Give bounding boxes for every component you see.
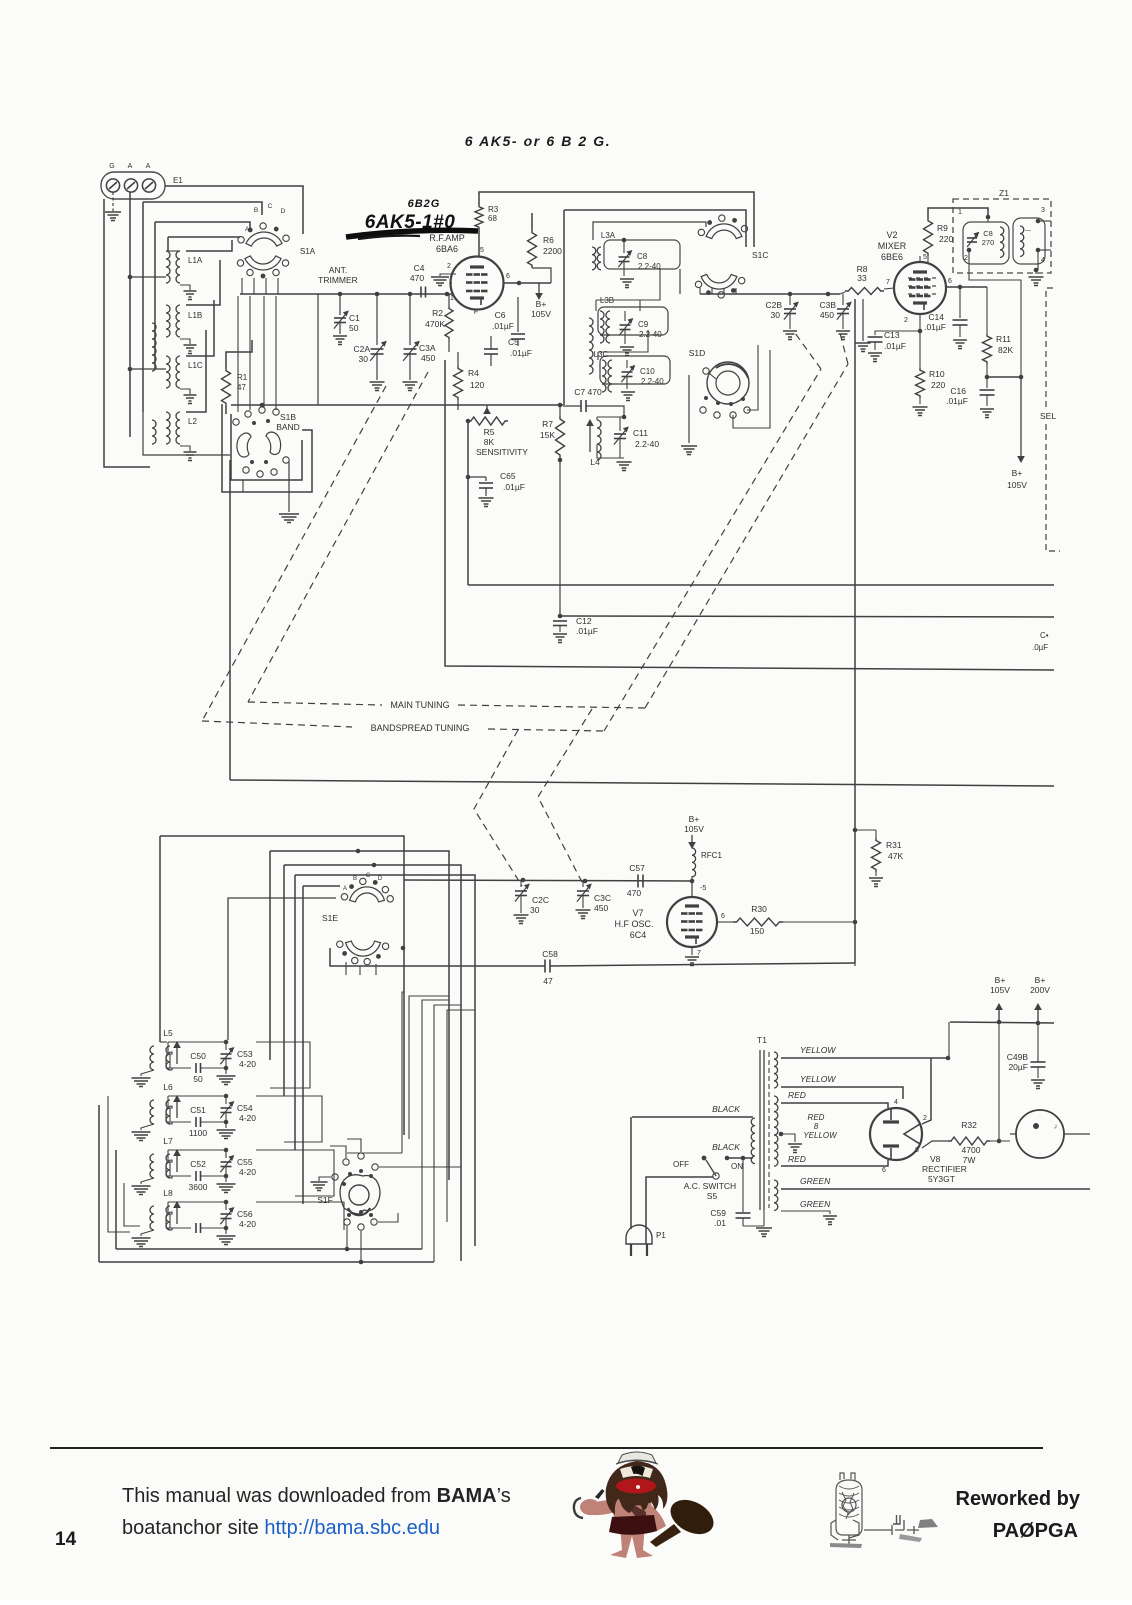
svg-text:4-20: 4-20 [239,1167,256,1177]
svg-text:1: 1 [450,295,454,302]
wire osc bus y880 [404,880,692,881]
wire R11 to B+ node [987,376,1021,378]
svg-text:8: 8 [915,1147,919,1154]
svg-text:470K: 470K [425,319,445,329]
wire R5 left vertical x468 [467,421,469,585]
wire R6 bottom junction [532,268,551,283]
trimmer capacitor C8 2.2-40 [619,256,630,258]
variable capacitor C3A 450 [409,294,411,345]
svg-text:S1A: S1A [300,247,316,256]
svg-text:R30: R30 [751,904,767,914]
svg-text:L2: L2 [188,417,197,426]
svg-text:.01: .01 [714,1218,726,1228]
svg-text:470: 470 [627,888,641,898]
wires coils to switch field [186,240,232,251]
wire S1E lower stems [345,962,347,975]
variable capacitor C3C 450 [577,890,589,892]
svg-text:RECTIFIER: RECTIFIER [922,1164,967,1174]
rotary switch S1C upper wafer [706,224,742,239]
svg-text:270: 270 [982,238,995,247]
wire S1B right riser [317,294,319,405]
footer rule [50,1447,1043,1449]
svg-text:C9: C9 [638,320,649,329]
resistor R1 47 [222,368,231,406]
S1F contact left with ground [332,1174,338,1180]
svg-text:R6: R6 [543,235,554,245]
svg-text:BLACK: BLACK [712,1142,740,1152]
svg-text:C11: C11 [633,428,648,438]
wire S1B inner box [243,480,296,492]
svg-text:C56: C56 [237,1209,253,1219]
svg-text:T1: T1 [757,1035,767,1045]
svg-text:MIXER: MIXER [878,241,907,251]
dashed gang line MAIN down branch to C3C [538,709,592,886]
svg-text:50: 50 [349,323,359,333]
T1 secondary HV winding [774,1096,778,1166]
svg-text:B: B [254,207,258,214]
wire R7 junctions [559,405,561,416]
svg-text:RED: RED [788,1154,806,1164]
wire S1E to L5 row [228,898,336,1040]
svg-text:L1A: L1A [188,256,203,265]
ground below E1 [112,192,114,211]
Z1 left coil [1000,227,1004,257]
svg-text:5Y3GT: 5Y3GT [928,1174,955,1184]
svg-text:6BE6: 6BE6 [881,252,903,262]
svg-text:C2A: C2A [353,344,370,354]
dashed gang line BANDSPREAD left diagonal [202,386,386,721]
svg-text:B: B [353,876,357,882]
svg-text:8: 8 [814,1122,819,1131]
svg-text:L1C: L1C [188,361,203,370]
ground L2 [180,446,190,451]
svg-text:C8: C8 [637,252,648,261]
variable capacitor C2B 30 [789,294,791,305]
svg-text:7: 7 [886,279,890,286]
svg-text:5: 5 [480,247,484,254]
svg-text:L3C: L3C [594,350,609,359]
svg-text:47: 47 [543,976,553,986]
wire bundle tops join loops [402,992,404,1020]
svg-text:C3C: C3C [594,893,611,903]
svg-text:P1: P1 [656,1231,666,1240]
svg-text:14: 14 [55,1529,77,1550]
trimmer capacitor C10 2.2-40 [622,371,633,373]
svg-text:YELLOW: YELLOW [803,1131,838,1140]
svg-text:C50: C50 [190,1051,206,1061]
resistor R7 15K [556,416,565,458]
svg-text:This manual was downloaded fro: This manual was downloaded from BAMA’s [122,1485,511,1507]
svg-text:6: 6 [506,273,510,280]
svg-text:82K: 82K [998,345,1013,355]
svg-text:L7: L7 [163,1136,173,1146]
ground S1D [688,375,690,443]
wires S1F top elbows [347,1139,361,1152]
trimmer capacitor C9 2.2-40 [620,324,631,326]
svg-text:30: 30 [771,310,781,320]
primary winding of L2 [152,420,156,444]
L3B box [598,307,668,335]
svg-text:D: D [281,208,286,215]
svg-text:L3A: L3A [601,231,616,240]
svg-text:2.2-40: 2.2-40 [639,330,662,339]
svg-text:450: 450 [820,310,834,320]
Z1 right coil [1020,226,1024,256]
wire L3A box right down [679,269,681,294]
svg-text:200V: 200V [1030,985,1050,995]
ground right of S1C [862,299,864,341]
wire R9 top to Z1 [928,208,988,218]
svg-text:L1B: L1B [188,311,202,320]
S1D lower contacts [704,396,708,400]
wire nested row 2 [155,222,250,228]
svg-text:3: 3 [1041,207,1045,214]
T1 primary winding [751,1118,755,1164]
wire switch to plug [646,1177,713,1244]
svg-text:C59: C59 [710,1208,726,1218]
wire nested row 1 [143,202,262,215]
svg-text:C: C [268,203,273,210]
svg-text:1100: 1100 [189,1128,208,1138]
Z1 pin wires [987,217,989,222]
trimmer capacitor C53 4-20 [221,1053,232,1055]
S1F contacts top [343,1159,349,1165]
svg-text:2.2-40: 2.2-40 [641,377,664,386]
svg-text:105V: 105V [531,309,551,319]
svg-text:S1C: S1C [752,250,769,260]
svg-text:47: 47 [237,383,246,392]
resistor R10 220 [919,331,921,368]
svg-text:6BA6: 6BA6 [436,244,458,254]
svg-text:OFF: OFF [673,1160,689,1169]
T1 secondary yellow winding [774,1052,778,1088]
wire S1E inner [303,885,340,887]
wire B+ 200V riser power [1037,1006,1039,1062]
ground under Z1 [1035,270,1037,274]
choke RFC1 [691,876,693,881]
svg-text:A: A [146,163,151,170]
dashed gang line BANDSPREAD horizontal [202,721,352,727]
svg-text:6C4: 6C4 [630,930,647,940]
svg-text:470: 470 [410,273,424,283]
wire yellow riser to rail [948,1022,950,1058]
tube clipart by Reworked [830,1473,938,1548]
wire V1 grid to bus [451,282,453,284]
svg-text:2: 2 [447,263,451,270]
svg-text:.01µF: .01µF [503,482,525,492]
svg-text:105V: 105V [684,824,704,834]
wire S1F bottom stems [346,1226,348,1249]
label B+ 105V at V1 [538,283,540,295]
dashed gang line BANDSPREAD right diagonal to C2B [604,369,821,731]
wire R3 to top bus [479,192,754,247]
svg-text:C55: C55 [237,1157,253,1167]
ground below C8 [620,278,634,280]
trimmer capacitor C55 4-20 [221,1161,232,1163]
resistor R2 470K [445,306,453,340]
svg-text:6: 6 [948,278,952,285]
wire box bus y583 [468,584,1054,586]
svg-text:SENSITIVITY: SENSITIVITY [476,447,528,457]
wire power section frame [854,963,856,966]
svg-text:450: 450 [421,353,435,363]
S1A contact stems [241,278,243,294]
svg-text:.01µF: .01µF [884,341,906,351]
dashed gang line BANDSPREAD down branch to C2C [474,730,522,886]
svg-text:B+: B+ [689,814,700,824]
svg-text:3600: 3600 [189,1182,208,1192]
svg-text:105V: 105V [1007,480,1027,490]
dashed gang line MAIN right diagonal to C3B [645,364,848,708]
rotary switch S1A lower wafer [245,256,281,270]
T1 secondary green winding [774,1180,778,1210]
svg-text:H.F OSC.: H.F OSC. [614,919,653,929]
wire bottom bus y1249 [116,1248,422,1250]
wire V1 pin2 to ground [440,274,456,276]
wire yellow second [781,1087,903,1099]
svg-text:C58: C58 [542,949,558,959]
tube V8 RECTIFIER 5Y3GT [870,1108,922,1160]
ground L8 [141,1230,154,1236]
wire V8 pin2 riser [922,1058,931,1124]
variable capacitor C2C 30 [515,890,527,892]
wire nested row 3 [168,236,240,238]
wire bottom bus y1262 [99,1261,434,1263]
svg-text:R9: R9 [937,223,948,233]
wires S1D to bus [747,345,758,410]
svg-text:L8: L8 [163,1188,173,1198]
S1F contacts bottom [344,1219,350,1225]
wire S1F right y1167 [379,1166,461,1168]
svg-text:G: G [109,163,114,170]
svg-text:BAND: BAND [276,422,300,432]
variable capacitor C3B 450 [842,294,844,305]
svg-text:R7: R7 [542,419,553,429]
AC plug P1 [626,1225,652,1244]
dashed gang line MAIN left diagonal [248,372,428,702]
wire S1E loop3 [284,865,461,1261]
ground L1A [180,285,190,290]
trimmer capacitor C56 4-20 [221,1213,232,1215]
svg-text:BLACK: BLACK [712,1104,740,1114]
svg-text:A: A [128,163,133,170]
L3A box [604,240,680,269]
resistor R4 120 [454,366,463,400]
svg-text:GREEN: GREEN [800,1199,831,1209]
svg-text:E1: E1 [173,176,183,185]
svg-text:.0µF: .0µF [1032,643,1048,652]
svg-text:30: 30 [359,354,369,364]
wire vertical x168 [167,237,169,251]
resistor R30 150 [733,918,783,926]
svg-text:220: 220 [939,234,953,244]
rotary switch S1C lower wafer [701,274,737,289]
rotary switch S1E upper wafer [350,887,385,902]
svg-text:20µF: 20µF [1008,1062,1028,1072]
svg-text:V8: V8 [930,1154,941,1164]
wire L3A top bus [593,222,706,240]
svg-text:-5: -5 [700,885,706,892]
svg-text:S5: S5 [707,1191,718,1201]
svg-text:boatanchor site http://bama.sb: boatanchor site http://bama.sbc.edu [122,1517,440,1539]
svg-text:2: 2 [904,317,908,324]
wire coil bank nest left [160,1041,167,1043]
Z1 left winding box [963,222,1009,264]
svg-text:68: 68 [488,214,497,223]
wire primary bottom to switch [727,1157,753,1159]
antenna terminal strip E1 [101,172,165,199]
wire S1E loop4 [295,875,475,1246]
svg-text:4: 4 [1041,257,1045,264]
svg-text:C1: C1 [349,313,360,323]
ground L1B [180,339,190,344]
svg-text:C•: C• [1040,631,1049,640]
svg-text:50: 50 [193,1074,203,1084]
wire R6 top [531,213,533,230]
oscillator coil L4 [597,420,601,460]
ground L7 [141,1178,154,1184]
trimmer capacitor C54 4-20 [221,1107,232,1109]
svg-text:30: 30 [530,905,540,915]
svg-text:Reworked by: Reworked by [956,1488,1081,1510]
rotary switch S1E lower wafer [346,941,381,956]
svg-text:7: 7 [697,950,701,957]
wire black top primary [632,1116,753,1118]
svg-text:2: 2 [964,255,968,262]
Z1 tuning cap [967,237,977,239]
wire B+ drop [1020,377,1022,458]
svg-text:—: — [1025,228,1031,234]
antenna coil L1B [166,305,170,337]
wire osc output bus y966 with C58 [330,948,545,966]
svg-text:RFC1: RFC1 [701,851,722,860]
antenna coil L1C [166,356,170,388]
primary winding of L1B [152,323,156,371]
wire vertical bundle [401,1020,403,1153]
resistor R6 2200 [528,230,537,268]
svg-text:Z1: Z1 [999,188,1009,198]
wire R1 bottom to band bus [225,406,227,414]
svg-text:6: 6 [721,913,725,920]
svg-text:C12: C12 [576,616,592,626]
svg-text:D: D [378,876,383,882]
svg-text:GREEN: GREEN [800,1176,831,1186]
svg-text:33: 33 [857,273,867,283]
IF transformer Z1 dashed box [953,199,1051,273]
wire main antenna bus [240,293,452,295]
resistor R11 82K [986,287,988,334]
wire vertical x143 [142,202,144,412]
svg-text:V7: V7 [632,908,643,918]
rotary switch S1A upper wafer [246,232,282,246]
wire S1E loop2 [270,851,449,1180]
svg-text:YELLOW: YELLOW [800,1045,836,1055]
svg-text:C57: C57 [629,863,645,873]
resistor R31 47K [855,829,876,831]
wire red bottom [781,1160,888,1166]
wire cathode net [457,400,459,410]
trimmer capacitor C11 2.2-40 [614,433,626,435]
wire green top filament bus [781,1188,1090,1190]
wire B+ rail y1022 [950,1022,1054,1023]
svg-text:4-20: 4-20 [239,1219,256,1229]
wire horizontal to ANT bus [130,276,166,278]
svg-text:TRIMMER: TRIMMER [318,275,358,285]
svg-text:2200: 2200 [543,246,562,256]
svg-text:R5: R5 [484,427,495,437]
svg-text:.01µF: .01µF [576,626,598,636]
ground below C9 [620,346,634,348]
wire vertical x155 [154,222,156,369]
svg-text:C3A: C3A [419,343,436,353]
svg-text:120: 120 [470,380,484,390]
svg-text:L6: L6 [163,1082,173,1092]
ground L6 [141,1124,154,1130]
svg-text:2.2-40: 2.2-40 [635,439,659,449]
wire V8 pin8 to R32 [922,1141,948,1148]
wire R1 top [226,340,252,368]
svg-text:C65: C65 [500,471,516,481]
wire V2 pin6 to R11 [946,286,987,288]
svg-text:4: 4 [894,1099,898,1106]
wire long bottom bus y780 [230,780,1054,786]
svg-text:5: 5 [923,254,927,261]
svg-text:C4: C4 [414,263,425,273]
svg-text:2.2-40: 2.2-40 [638,262,661,271]
svg-text:R10: R10 [929,369,945,379]
svg-text:C7 470: C7 470 [574,387,602,397]
ground S1B [288,462,290,512]
variable capacitor C2A 30 [376,294,378,345]
wire coil bank row links [256,1042,310,1088]
svg-text:A: A [343,886,347,892]
wire center tap [781,1134,795,1142]
wire vertical x229 to long bottom bus [229,460,231,780]
svg-text:S1D: S1D [689,348,706,358]
wire R3 bottom to tube [478,229,480,256]
row box L7 [166,1160,172,1178]
svg-text:C54: C54 [237,1103,253,1113]
svg-text:C14: C14 [928,312,944,322]
antenna coil L1A [166,251,170,283]
svg-text:C10: C10 [640,367,655,376]
svg-text:7W: 7W [963,1155,976,1165]
svg-text:C8: C8 [983,229,993,238]
ground below C10 [621,391,635,393]
svg-text:S1E: S1E [322,913,338,923]
filter tube partial right [1016,1110,1064,1158]
svg-text:1: 1 [958,209,962,216]
ground L1C [180,389,190,394]
svg-text:.01µF: .01µF [510,348,532,358]
wire Z1 pin2 to B+ node [969,250,1021,377]
svg-text:R2: R2 [432,308,443,318]
svg-text:A.C. SWITCH: A.C. SWITCH [684,1181,736,1191]
svg-text:C: C [366,873,371,879]
svg-text:R4: R4 [468,368,479,378]
L3C box [600,356,670,384]
svg-text:220: 220 [931,380,945,390]
svg-text:4-20: 4-20 [239,1059,256,1069]
S1B enclosure wires [231,414,302,480]
dashed SELECT link [1046,288,1053,410]
resistor R3 68 [475,205,483,229]
wires S1A to S1B verticals [237,296,239,412]
wire second top bus [564,210,746,247]
svg-text:PAØPGA: PAØPGA [993,1520,1078,1542]
svg-text:15K: 15K [540,430,555,440]
wire V1 plate pin6 [504,282,551,284]
